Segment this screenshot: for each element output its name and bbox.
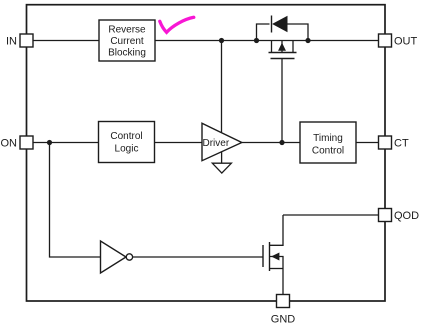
svg-text:Control: Control (312, 146, 344, 157)
svg-text:GND: GND (271, 314, 296, 326)
svg-text:IN: IN (6, 36, 17, 48)
svg-text:Driver: Driver (203, 138, 230, 149)
svg-text:OUT: OUT (394, 36, 418, 48)
svg-text:Logic: Logic (115, 144, 139, 155)
svg-text:Timing: Timing (313, 133, 343, 144)
svg-text:Control: Control (110, 131, 142, 142)
svg-text:CT: CT (394, 138, 409, 150)
svg-text:QOD: QOD (394, 210, 419, 222)
svg-text:Reverse: Reverse (108, 25, 146, 36)
svg-text:ON: ON (1, 138, 18, 150)
svg-text:Blocking: Blocking (108, 48, 146, 59)
svg-text:Current: Current (110, 36, 144, 47)
